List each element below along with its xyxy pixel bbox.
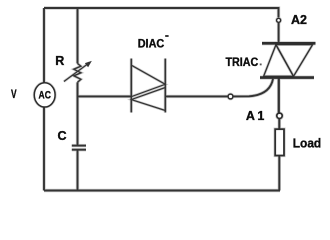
svg-text:AC: AC (39, 90, 51, 102)
svg-text:A2: A2 (291, 13, 307, 27)
resistor R wiper arrow (64, 61, 92, 82)
DIAC right bar (164, 59, 166, 113)
wire R branch from top (77, 8, 79, 64)
wire load to bottom (278, 156, 280, 191)
TRIAC label dot (260, 64, 262, 66)
wire TRIAC to A1 node (278, 78, 280, 113)
svg-text:DIAC: DIAC (138, 39, 165, 51)
svg-text:V: V (11, 87, 17, 101)
wire left upper (43, 8, 45, 83)
wire C to bottom (77, 150, 79, 191)
svg-text:R: R (55, 54, 64, 68)
svg-text:Load: Load (293, 136, 321, 151)
TRIAC up triangle (264, 45, 294, 77)
wire A1 node to load (278, 119, 280, 130)
capacitor C plates (72, 146, 86, 150)
wire DIAC to gate node (165, 95, 228, 97)
wire junction to DIAC (78, 95, 132, 97)
TRIAC bottom bar MT1 (260, 76, 314, 79)
resistor R (variable) zigzag (74, 64, 81, 83)
wire top (44, 8, 279, 17)
node A1 (open circle) (277, 113, 282, 118)
load resistor rectangle (275, 129, 284, 155)
TRIAC top bar MT2 (262, 42, 316, 45)
svg-text:A1: A1 (246, 109, 264, 123)
node A2 (open circle) (277, 18, 281, 22)
soft scan halo underlay (34, 8, 315, 191)
DIAC upper triangle (131, 65, 165, 97)
DIAC label tick mark (165, 35, 168, 37)
wire gate curve to TRIAC (233, 79, 273, 97)
wire bottom (44, 190, 280, 192)
wire left lower (43, 107, 45, 191)
DIAC lower triangle (131, 88, 165, 111)
svg-text:TRIAC: TRIAC (226, 55, 259, 69)
wire A2 node to TRIAC (278, 23, 280, 43)
wire R to C junction (77, 82, 79, 145)
svg-text:C: C (58, 129, 67, 143)
gate node (open circle) (228, 94, 233, 99)
DIAC left bar (130, 59, 132, 113)
voltage source V (AC) (34, 83, 55, 107)
TRIAC down triangle (276, 45, 313, 77)
